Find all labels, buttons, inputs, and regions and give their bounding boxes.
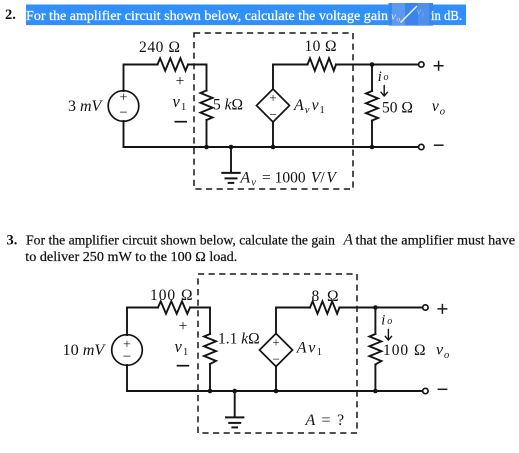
svg-text:−: − xyxy=(123,349,131,365)
node dot diamond bottom xyxy=(271,145,276,150)
resistor 240 ohm xyxy=(158,58,189,70)
svg-text:v: v xyxy=(391,11,396,23)
wire: source top to 240ohm resistor xyxy=(124,65,158,92)
wire: bottom node to - terminal (circuit 2) xyxy=(375,390,422,392)
node dot 5k bottom xyxy=(204,145,209,150)
minus sign at output (circuit 2) xyxy=(438,388,448,390)
resistor 50 ohm xyxy=(371,65,373,92)
svg-text:2.: 2. xyxy=(5,7,16,23)
svg-text:A: A xyxy=(296,339,307,356)
svg-text:A: A xyxy=(305,412,316,429)
plus sign at output xyxy=(434,61,444,71)
svg-text:o: o xyxy=(440,107,445,118)
minus sign at output xyxy=(434,144,444,146)
svg-text:5 kΩ: 5 kΩ xyxy=(213,97,243,114)
v1 minus label (circuit 2) xyxy=(177,365,190,367)
io arrow xyxy=(381,86,387,97)
svg-text:/: / xyxy=(320,170,325,187)
voltage source Vs 3 mV xyxy=(108,91,139,122)
wire: diamond top to top rail (circuit 2) xyxy=(276,308,310,334)
inline formula vo/vi (selected image) xyxy=(391,6,424,24)
ground symbol circuit 2 xyxy=(232,389,237,394)
io arrow (circuit 2) xyxy=(385,330,391,341)
resistor 8 ohm xyxy=(310,301,340,313)
svg-text:+: + xyxy=(269,90,276,105)
svg-text:For the amplifier circuit show: For the amplifier circuit shown below, c… xyxy=(26,9,388,24)
output terminal + (open circle) xyxy=(419,62,424,67)
svg-text:8 Ω: 8 Ω xyxy=(312,288,339,305)
v1 minus label xyxy=(175,121,188,123)
resistor 100 ohm load xyxy=(374,308,376,335)
svg-text:100 Ω: 100 Ω xyxy=(150,287,193,304)
svg-text:For the amplifier circuit show: For the amplifier circuit shown below, c… xyxy=(26,234,335,249)
node dot 100ohm load top xyxy=(373,305,378,310)
svg-text:1: 1 xyxy=(317,347,322,358)
wire: 10ohm to + terminal xyxy=(336,64,418,66)
wire: bottom node to - terminal xyxy=(372,146,418,148)
wire: diamond bottom to rail (circuit 2) xyxy=(275,367,277,392)
svg-text:= 1000: = 1000 xyxy=(262,170,306,187)
svg-text:A: A xyxy=(293,97,304,114)
svg-text:v: v xyxy=(173,92,181,111)
amplifier dashed box 2 xyxy=(198,274,357,433)
svg-text:o: o xyxy=(384,72,389,83)
svg-text:i: i xyxy=(378,69,382,85)
svg-text:1.1 kΩ: 1.1 kΩ xyxy=(218,331,260,348)
svg-text:v: v xyxy=(432,98,440,115)
svg-text:50 Ω: 50 Ω xyxy=(382,100,413,117)
svg-text:V: V xyxy=(326,170,337,187)
svg-text:v: v xyxy=(417,7,422,18)
wire: diamond bottom to bottom rail xyxy=(272,122,274,147)
svg-text:to deliver 250 mW to the 100 Ω: to deliver 250 mW to the 100 Ω load. xyxy=(25,250,237,265)
output terminal + (open circle, circuit 2) xyxy=(423,305,428,310)
svg-text:v: v xyxy=(305,105,310,116)
ground symbol circuit 1 xyxy=(229,145,234,150)
amplifier dashed box 1 xyxy=(194,33,353,189)
svg-text:?: ? xyxy=(337,412,344,429)
svg-text:=: = xyxy=(322,412,331,429)
svg-text:−: − xyxy=(119,105,127,121)
svg-text:10 Ω: 10 Ω xyxy=(305,38,337,55)
output terminal - (open circle) xyxy=(419,144,424,149)
wire: source top to 100ohm resistor xyxy=(127,308,158,336)
svg-text:i: i xyxy=(381,313,385,329)
svg-text:100 Ω: 100 Ω xyxy=(383,342,426,359)
wire: diamond top to top rail xyxy=(273,65,308,90)
svg-text:o: o xyxy=(397,15,401,24)
plus sign at output (circuit 2) xyxy=(437,304,447,314)
svg-text:i: i xyxy=(422,11,424,19)
dependent source Av*v1 (diamond) xyxy=(257,89,290,122)
svg-text:10 mV: 10 mV xyxy=(63,341,107,359)
svg-text:240 Ω: 240 Ω xyxy=(139,39,180,56)
node dot 50ohm bottom xyxy=(370,145,375,150)
wire: 1.1k bottom to rail xyxy=(209,364,211,391)
svg-text:+: + xyxy=(176,73,185,90)
node dot diamond bottom (circuit 2) xyxy=(274,389,279,394)
svg-text:v: v xyxy=(312,97,320,114)
wire: 100ohm to 1.1k top corner xyxy=(190,308,210,335)
output terminal - (open circle, circuit 2) xyxy=(423,388,428,393)
resistor 5 kohm xyxy=(201,91,213,121)
wire: source bottom to rail xyxy=(126,365,128,391)
selection highlight over formula image xyxy=(389,3,434,26)
wire: source bottom to bottom rail xyxy=(123,121,125,147)
svg-text:v: v xyxy=(308,339,316,356)
svg-text:−: − xyxy=(272,351,280,366)
bottom rail wire circuit 1 xyxy=(124,146,373,148)
svg-text:v: v xyxy=(436,342,444,359)
resistor 100 ohm (input) xyxy=(158,301,190,313)
dependent source A*v1 (diamond, circuit 2) xyxy=(260,334,293,367)
node dot 100ohm load bottom xyxy=(373,389,378,394)
svg-text:o: o xyxy=(387,316,392,327)
resistor 1.1 kohm xyxy=(204,334,216,364)
svg-text:+: + xyxy=(272,334,279,349)
svg-text:v: v xyxy=(175,337,183,356)
bottom rail wire circuit 2 xyxy=(127,390,375,392)
svg-text:that the amplifier must have: that the amplifier must have xyxy=(356,234,516,249)
svg-text:o: o xyxy=(444,350,449,361)
svg-text:1: 1 xyxy=(183,347,188,358)
node dot 50ohm top xyxy=(370,62,375,67)
selection highlight band xyxy=(26,5,466,26)
wire: 5k bottom to ground rail xyxy=(206,120,208,147)
svg-text:+: + xyxy=(179,318,188,335)
svg-text:−: − xyxy=(269,107,277,122)
svg-text:1: 1 xyxy=(181,102,186,113)
wire: 8ohm to + terminal (circuit 2) xyxy=(340,307,423,309)
svg-text:1: 1 xyxy=(320,105,325,116)
resistor 10 ohm xyxy=(308,58,337,70)
svg-text:+: + xyxy=(120,91,128,106)
node dot 1.1k bottom xyxy=(208,389,213,394)
svg-text:3 mV: 3 mV xyxy=(68,98,104,115)
wire: 240ohm to 5k top corner xyxy=(188,65,207,91)
svg-text:v: v xyxy=(251,178,256,189)
svg-text:in dB.: in dB. xyxy=(431,9,462,24)
svg-text:A: A xyxy=(239,170,250,187)
svg-text:A: A xyxy=(343,232,354,249)
voltage source Vs 10 mV xyxy=(112,335,143,366)
svg-text:3.: 3. xyxy=(7,233,18,249)
